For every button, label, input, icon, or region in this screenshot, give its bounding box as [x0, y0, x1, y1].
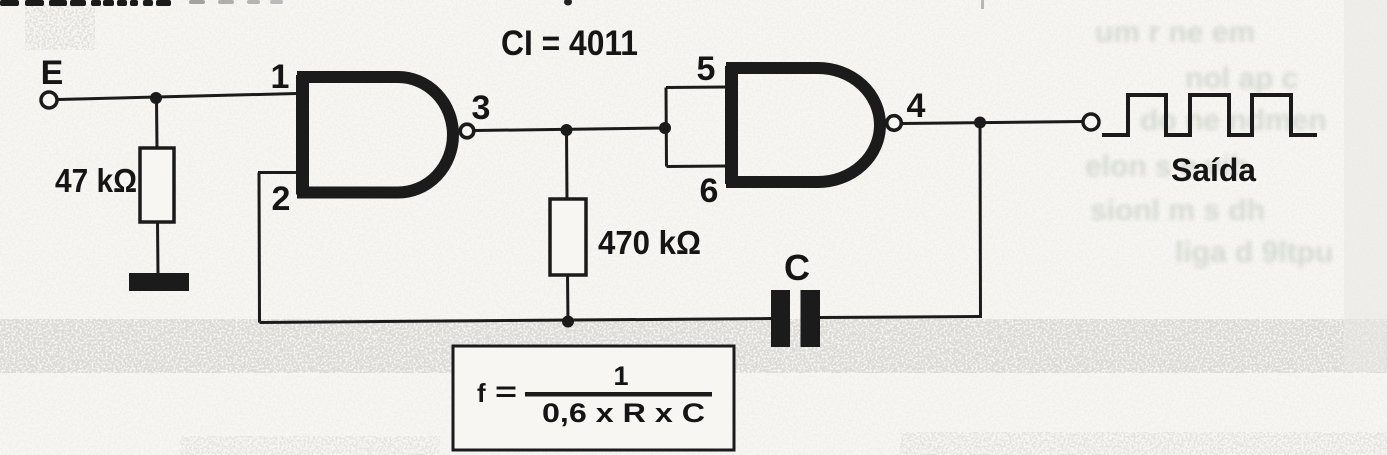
output bubble gate U1b	[887, 116, 902, 131]
resistor 47k body	[140, 148, 174, 222]
wire junction down to R1	[155, 98, 159, 149]
svg-text:3: 3	[472, 89, 491, 127]
svg-text:5: 5	[697, 50, 716, 88]
junction node at R2 top	[561, 124, 573, 136]
wire pin2 stub	[258, 171, 298, 174]
scanner grain band across bottom	[0, 319, 1387, 373]
junction node at R1 top	[150, 92, 162, 104]
wire gate1 out to gate2 in	[475, 128, 666, 131]
wire bottom rail left segment	[260, 319, 772, 323]
input terminal E	[41, 92, 57, 108]
svg-text:E: E	[41, 54, 64, 92]
formula fraction bar	[525, 392, 712, 397]
svg-text:CI = 4011: CI = 4011	[501, 24, 638, 63]
ground	[129, 273, 189, 291]
formula box	[453, 346, 734, 450]
svg-text:4: 4	[907, 87, 926, 125]
svg-text:47 kΩ: 47 kΩ	[55, 162, 137, 199]
wire pin6 stub	[667, 165, 728, 169]
svg-text:2: 2	[272, 180, 291, 218]
svg-text:C: C	[784, 247, 810, 288]
resistor 470k body	[550, 199, 586, 275]
scanner grain patch top-left	[25, 5, 95, 50]
right edge shading	[1344, 0, 1387, 372]
wire feedback left vertical	[258, 173, 262, 323]
svg-text:sionl m s dh: sionl m s dh	[1090, 194, 1265, 227]
svg-text:do ne ndmen: do ne ndmen	[1140, 104, 1327, 137]
svg-text:470 kΩ: 470 kΩ	[598, 224, 701, 261]
stray scan mark top edge	[981, 0, 984, 9]
square wave symbol	[1102, 95, 1317, 135]
capacitor C plate left	[771, 290, 790, 347]
svg-text:um r ne em: um r ne em	[1095, 16, 1255, 49]
svg-text:Saída: Saída	[1171, 152, 1256, 188]
svg-text:nol ap c: nol ap c	[1185, 62, 1298, 95]
output terminal	[1083, 114, 1099, 130]
svg-text:f: f	[477, 378, 486, 408]
stray ink dot top edge	[564, 0, 572, 6]
junction node above C branch	[974, 117, 986, 129]
svg-text:liga d 9ltpu: liga d 9ltpu	[1175, 236, 1333, 269]
svg-text:6: 6	[700, 172, 719, 210]
wire gate2 out to output terminal	[902, 122, 1083, 124]
capacitor C plate right	[801, 290, 821, 347]
output bubble gate U1a	[460, 124, 474, 138]
svg-text:0,6 x R x C: 0,6 x R x C	[542, 398, 705, 428]
scanner grain strip bottom edge	[180, 436, 440, 455]
wire bottom rail right segment	[820, 317, 981, 318]
wire E to gate1 pin1	[58, 94, 297, 100]
wire tie pins 5-6 vertical	[665, 88, 669, 167]
junction node at gate2 input	[659, 122, 671, 134]
NAND gate U1a	[297, 75, 453, 195]
cut-off text remnant at top edge	[0, 0, 283, 6]
NAND gate U1b	[726, 66, 880, 184]
wire right vertical down to C	[979, 123, 983, 319]
svg-text:1: 1	[613, 361, 628, 391]
wire R2 to bottom rail	[566, 275, 570, 322]
wire pin5 stub	[666, 86, 727, 90]
wire down to R2	[565, 130, 569, 200]
svg-text:1: 1	[271, 58, 290, 96]
svg-text:=: =	[495, 376, 517, 407]
wire R1 to ground	[156, 222, 160, 274]
bleed-through text upper right	[1085, 16, 1333, 269]
junction node on bottom rail	[562, 316, 574, 328]
